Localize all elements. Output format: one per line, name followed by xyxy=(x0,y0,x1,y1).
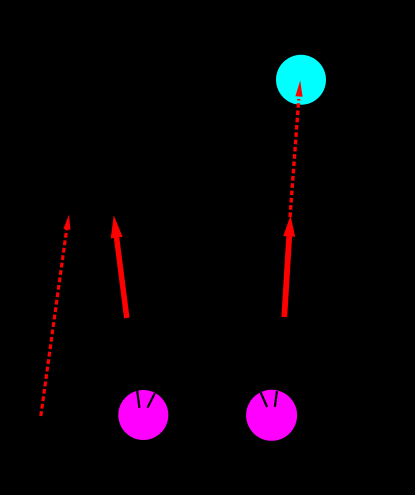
right ball tick 2 xyxy=(275,391,277,407)
left ball tick 2 xyxy=(148,393,155,408)
right ball tick 1 xyxy=(261,393,267,408)
right solid arrow shaft xyxy=(284,237,289,318)
left dashed arrow shaft xyxy=(41,227,67,416)
right magenta ball xyxy=(246,390,297,441)
left magenta ball xyxy=(118,390,168,440)
right dashed arrow head xyxy=(295,81,302,97)
left solid arrow shaft xyxy=(116,236,126,318)
right solid arrow head xyxy=(283,216,295,237)
left solid arrow head xyxy=(111,215,123,238)
cyan ball xyxy=(276,55,326,105)
left dashed arrow head xyxy=(63,215,70,230)
left ball tick 1 xyxy=(137,391,139,408)
right dashed arrow shaft xyxy=(290,99,299,217)
